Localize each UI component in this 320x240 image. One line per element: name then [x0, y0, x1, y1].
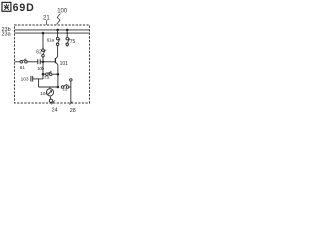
switch 74	[61, 84, 68, 88]
svg-text:62: 62	[36, 50, 42, 56]
svg-text:75: 75	[70, 39, 76, 45]
wire: transistor emitter down	[57, 65, 59, 75]
terminal 24 circle	[49, 99, 52, 102]
capacitor 102	[38, 59, 40, 64]
switch 73	[46, 71, 52, 75]
node: junction dot on 23b at x=57.6	[56, 29, 59, 32]
switch 61	[20, 59, 27, 63]
svg-text:101: 101	[60, 61, 69, 67]
svg-text:24: 24	[52, 108, 58, 114]
svg-text:74: 74	[62, 87, 67, 92]
wire: vertical continues to capacitor 103 tee	[42, 74, 44, 79]
wire: 23b dot down to switch 61a (crosses 23a)	[57, 30, 59, 37]
wire: switch 62 to main node	[42, 57, 44, 62]
svg-text:69D: 69D	[13, 2, 35, 14]
wire: 104 down to terminal 24	[49, 96, 52, 99]
lead line (zigzag) from 100 to box	[57, 14, 61, 25]
wire: left vertical from node 43,61.8 down	[42, 62, 44, 74]
switch 61a	[56, 37, 60, 45]
current source 104 circle	[46, 89, 53, 96]
svg-text:61: 61	[20, 65, 26, 70]
wire: 23a dot down to switch 62	[42, 33, 44, 49]
switch 75	[66, 37, 70, 45]
wire: left horizontal from boundary	[15, 61, 21, 63]
wire: switch 73 to emitter node	[52, 73, 58, 75]
wire: vertical down to terminal 28	[70, 81, 72, 103]
wire: 23b dot down to switch 75 (crosses 23a)	[66, 30, 68, 37]
svg-text:103: 103	[21, 77, 29, 83]
dashed block boundary 100	[15, 25, 90, 103]
capacitor 103	[31, 76, 43, 82]
wire: switch 61a to transistor collector	[57, 46, 59, 57]
svg-text:61a: 61a	[47, 37, 55, 43]
svg-text:28: 28	[70, 108, 76, 114]
wire: dot to switch 73	[43, 73, 46, 75]
wire: bottom rail	[39, 86, 58, 88]
node: junction dot on 23b at x=67.2	[66, 29, 69, 32]
node: junction dot on 23a at x=43	[42, 32, 45, 35]
current source 104 : stub	[49, 87, 51, 89]
svg-text:104: 104	[40, 91, 48, 96]
node: junction dot at 43,61.8	[42, 61, 45, 64]
node: crossing blob at 57.6 on 23a	[57, 32, 59, 34]
wire: capacitor 102 to node	[40, 61, 43, 63]
terminal stub circle (top of 28 line)	[70, 79, 72, 81]
bus line 23a	[15, 32, 90, 34]
svg-text:73: 73	[44, 75, 49, 80]
svg-text:23a: 23a	[2, 32, 12, 38]
node: junction dot at 57.9,87	[57, 86, 60, 89]
bus line 23b	[15, 29, 90, 31]
wire: node to transistor 101 base	[43, 61, 55, 63]
wire: switch 74 to vertical	[69, 86, 71, 88]
wire: emitter continues down	[57, 74, 59, 87]
wire: vertical drop from cap wire to bottom rail	[38, 79, 40, 87]
switch 62	[42, 49, 46, 57]
node: junction dot at 43,74.2	[42, 73, 45, 76]
transistor 101	[55, 57, 58, 65]
svg-text:100: 100	[57, 8, 68, 14]
node: junction dot at emitter/switch73	[57, 73, 60, 76]
node: crossing blob at 67.2 on 23a	[66, 32, 68, 34]
terminal 24 slash	[51, 100, 54, 104]
terminal 28 slash	[70, 102, 73, 105]
wire: switch 61 to capacitor 102	[27, 61, 37, 63]
wire: stub below switch 75	[66, 46, 68, 47]
lead tick from 21 to box top	[45, 20, 47, 25]
figure title 図69D : 図 glyph box	[2, 2, 11, 11]
